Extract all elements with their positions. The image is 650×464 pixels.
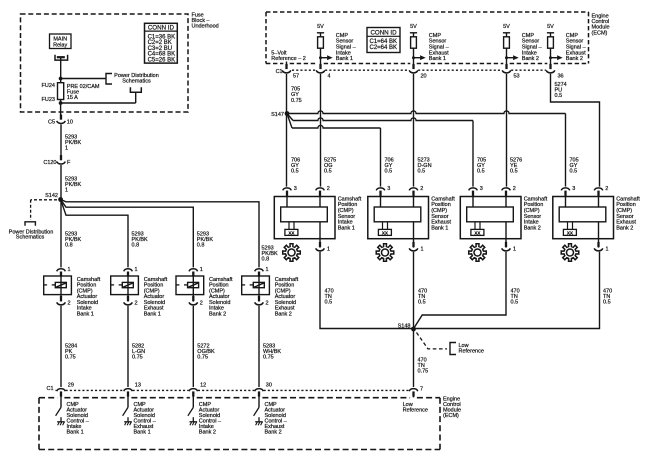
svg-text:2: 2 xyxy=(266,301,269,307)
svg-text:10: 10 xyxy=(67,120,73,126)
svg-text:Underhood: Underhood xyxy=(192,23,219,29)
svg-text:3: 3 xyxy=(480,186,483,192)
svg-text:XX: XX xyxy=(474,230,481,235)
svg-text:FU23: FU23 xyxy=(42,97,55,103)
svg-text:3: 3 xyxy=(387,186,390,192)
svg-text:36: 36 xyxy=(558,74,564,80)
svg-text:0.5: 0.5 xyxy=(510,169,518,175)
svg-text:5V: 5V xyxy=(547,24,554,30)
svg-text:C5=26 BK: C5=26 BK xyxy=(148,58,176,64)
svg-text:Schematics: Schematics xyxy=(122,79,151,85)
svg-text:15 A: 15 A xyxy=(67,95,78,101)
svg-text:5V: 5V xyxy=(317,24,324,30)
svg-text:0.5: 0.5 xyxy=(418,299,426,305)
svg-text:Bank 2: Bank 2 xyxy=(522,56,539,62)
svg-text:Bank 1: Bank 1 xyxy=(77,311,94,317)
svg-text:Bank 1: Bank 1 xyxy=(144,311,161,317)
svg-text:Bank 2: Bank 2 xyxy=(199,429,216,435)
svg-text:5V: 5V xyxy=(503,24,510,30)
svg-text:C2=64 BK: C2=64 BK xyxy=(370,45,398,51)
svg-text:(ECM): (ECM) xyxy=(592,30,608,36)
svg-text:S148: S148 xyxy=(398,323,411,329)
svg-text:Bank 2: Bank 2 xyxy=(275,311,292,317)
svg-text:Bank 2: Bank 2 xyxy=(616,226,633,232)
svg-text:0.8: 0.8 xyxy=(262,257,270,263)
svg-text:3: 3 xyxy=(294,186,297,192)
svg-text:Bank 1: Bank 1 xyxy=(431,226,448,232)
svg-text:0.5: 0.5 xyxy=(511,299,519,305)
svg-text:12: 12 xyxy=(200,383,206,389)
svg-text:Bank 1: Bank 1 xyxy=(336,56,353,62)
svg-text:0.5: 0.5 xyxy=(603,299,611,305)
svg-text:0.75: 0.75 xyxy=(65,354,76,360)
svg-text:2: 2 xyxy=(327,186,330,192)
svg-text:Reference: Reference xyxy=(403,407,428,413)
svg-text:0.75: 0.75 xyxy=(263,354,274,360)
svg-text:0.5: 0.5 xyxy=(385,169,393,175)
svg-text:Bank 2: Bank 2 xyxy=(524,226,541,232)
svg-text:1: 1 xyxy=(65,146,68,152)
svg-text:C120: C120 xyxy=(43,160,56,166)
svg-text:2: 2 xyxy=(605,186,608,192)
svg-text:1: 1 xyxy=(200,267,203,273)
svg-text:Bank 2: Bank 2 xyxy=(209,311,226,317)
svg-text:0.75: 0.75 xyxy=(418,368,429,374)
svg-text:0.5: 0.5 xyxy=(477,169,485,175)
svg-text:XX: XX xyxy=(567,230,574,235)
svg-text:Relay: Relay xyxy=(53,42,67,48)
svg-text:1: 1 xyxy=(65,188,68,194)
svg-text:Bank 2: Bank 2 xyxy=(265,429,282,435)
svg-text:0.5: 0.5 xyxy=(418,169,426,175)
svg-text:30: 30 xyxy=(266,383,272,389)
svg-text:1: 1 xyxy=(327,247,330,253)
svg-text:1: 1 xyxy=(606,247,609,253)
svg-text:XX: XX xyxy=(288,230,295,235)
svg-text:2: 2 xyxy=(420,186,423,192)
svg-text:1: 1 xyxy=(513,247,516,253)
svg-text:0.8: 0.8 xyxy=(65,243,73,249)
svg-text:Bank 2: Bank 2 xyxy=(566,56,583,62)
svg-text:CONN ID: CONN ID xyxy=(370,29,397,36)
svg-text:S147: S147 xyxy=(271,112,284,118)
svg-text:0.5: 0.5 xyxy=(570,169,578,175)
svg-text:1: 1 xyxy=(266,267,269,273)
svg-text:2: 2 xyxy=(200,301,203,307)
svg-text:2: 2 xyxy=(513,186,516,192)
svg-text:(ECM): (ECM) xyxy=(443,413,459,419)
svg-text:2: 2 xyxy=(135,301,138,307)
svg-text:Reference: Reference xyxy=(459,349,484,355)
svg-text:S142: S142 xyxy=(45,193,58,199)
svg-text:XX: XX xyxy=(382,230,389,235)
svg-text:2: 2 xyxy=(68,301,71,307)
svg-text:7: 7 xyxy=(420,387,423,393)
svg-text:13: 13 xyxy=(135,383,141,389)
svg-text:4: 4 xyxy=(328,74,331,80)
svg-text:FU24: FU24 xyxy=(42,83,55,89)
svg-text:Schematics: Schematics xyxy=(16,235,45,241)
svg-text:5V: 5V xyxy=(410,24,417,30)
svg-text:Reference – 2: Reference – 2 xyxy=(271,56,306,62)
svg-text:29: 29 xyxy=(68,383,74,389)
svg-text:53: 53 xyxy=(514,74,520,80)
svg-text:Bank 1: Bank 1 xyxy=(134,429,151,435)
svg-text:0.5: 0.5 xyxy=(325,299,333,305)
svg-text:Bank 1: Bank 1 xyxy=(429,56,446,62)
svg-text:Bank 1: Bank 1 xyxy=(67,429,84,435)
svg-text:0.75: 0.75 xyxy=(291,98,302,104)
svg-text:0.5: 0.5 xyxy=(555,93,563,99)
svg-text:Bank 1: Bank 1 xyxy=(338,226,355,232)
svg-text:0.75: 0.75 xyxy=(132,354,143,360)
svg-text:C1: C1 xyxy=(46,386,53,392)
svg-text:C1: C1 xyxy=(276,69,283,75)
svg-text:1: 1 xyxy=(68,267,71,273)
svg-text:0.8: 0.8 xyxy=(132,243,140,249)
svg-text:20: 20 xyxy=(421,74,427,80)
svg-text:C5: C5 xyxy=(48,120,55,126)
svg-text:1: 1 xyxy=(421,247,424,253)
svg-text:1: 1 xyxy=(135,267,138,273)
svg-text:0.5: 0.5 xyxy=(324,169,332,175)
svg-text:0.75: 0.75 xyxy=(197,354,208,360)
svg-text:3: 3 xyxy=(572,186,575,192)
svg-text:0.8: 0.8 xyxy=(197,243,205,249)
svg-text:57: 57 xyxy=(293,74,299,80)
svg-text:0.5: 0.5 xyxy=(291,169,299,175)
